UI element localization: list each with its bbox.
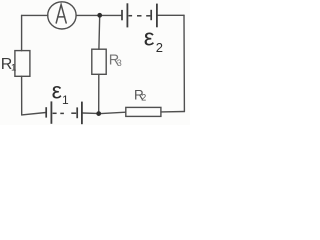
- wire right rail: [183, 15, 185, 111]
- label E1 (emf epsilon 1): [52, 77, 69, 107]
- battery E2 long plate 1: [126, 3, 128, 27]
- wire left rail upper: [21, 15, 23, 50]
- battery E1 long plate 2: [81, 102, 83, 125]
- svg-text:1: 1: [62, 93, 69, 107]
- ammeter letter A: [56, 5, 66, 23]
- svg-text:2: 2: [156, 40, 163, 55]
- label R3: [109, 53, 122, 69]
- wire top-left horizontal: [22, 14, 48, 16]
- node A junction dot: [97, 13, 102, 18]
- wire R2 to node B: [101, 112, 126, 113]
- battery E1: [46, 101, 82, 124]
- svg-text:3: 3: [117, 58, 122, 68]
- wire left rail lower: [21, 76, 23, 115]
- battery E1 short plate 1: [45, 107, 47, 117]
- svg-text:ε: ε: [52, 77, 62, 103]
- battery E2 dash c: [146, 15, 150, 17]
- battery E2 short plate 2: [150, 10, 152, 20]
- ammeter U1 circle: [48, 2, 76, 29]
- battery E2 dash a: [129, 15, 133, 17]
- wire node A to battery E2: [102, 14, 122, 16]
- battery E1 dash c: [71, 112, 76, 114]
- wire ammeter to node A: [76, 14, 97, 16]
- svg-text:2: 2: [141, 93, 146, 103]
- battery E1 dash a: [53, 112, 57, 114]
- battery E1 dash b: [60, 112, 64, 114]
- battery E2: [122, 3, 157, 27]
- battery E2 short plate 1: [121, 10, 123, 20]
- battery E1 short plate 2: [76, 107, 78, 118]
- battery E2 dash b: [137, 15, 142, 17]
- battery E1 long plate 1: [50, 101, 52, 123]
- resistor R2: [126, 107, 161, 116]
- resistor R1: [15, 51, 30, 77]
- node B junction dot: [96, 111, 101, 116]
- label R1: [1, 56, 16, 73]
- label E2 (emf epsilon 2): [144, 24, 163, 55]
- label R2: [134, 87, 146, 102]
- wire bottom-left horizontal: [22, 113, 46, 115]
- svg-text:ε: ε: [144, 24, 155, 51]
- battery E2 long plate 2: [156, 4, 158, 28]
- svg-text:1: 1: [11, 62, 16, 73]
- wire battery E2 to top-right corner: [157, 14, 184, 16]
- wire R3 to node B: [98, 74, 100, 111]
- resistor R3: [92, 49, 106, 74]
- wire bottom-right horizontal: [161, 111, 184, 113]
- wire node A down to R3: [98, 15, 101, 49]
- wire node B to battery E1: [82, 112, 96, 114]
